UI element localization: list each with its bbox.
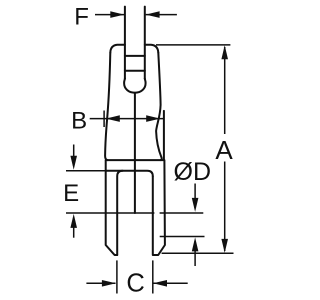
A bottom arrowhead bbox=[221, 239, 228, 253]
E lower arrow tail bbox=[73, 218, 75, 238]
upper fork right edge S-curve bbox=[156, 53, 162, 160]
E/OD mid line right segment bbox=[160, 212, 204, 214]
F dim line left bbox=[95, 14, 124, 16]
slot pin bar 1 bbox=[125, 55, 145, 57]
upper fork bottom edge bbox=[107, 159, 164, 161]
OD upper arrow tail bbox=[194, 184, 196, 209]
B left arrowhead bbox=[106, 115, 120, 122]
svg-text:A: A bbox=[215, 135, 233, 165]
upper fork right outer vertical bbox=[163, 111, 165, 160]
E upper ext line bbox=[66, 170, 105, 172]
A top arrowhead bbox=[221, 45, 228, 59]
B dim line bbox=[90, 118, 164, 120]
C left arrowhead bbox=[102, 280, 116, 287]
svg-text:B: B bbox=[71, 108, 87, 135]
junction left connector bbox=[105, 160, 107, 171]
E lower arrowhead bbox=[70, 214, 77, 228]
A dim line lower segment bbox=[224, 162, 226, 252]
svg-text:F: F bbox=[74, 3, 89, 30]
B right arrowhead bbox=[146, 115, 160, 122]
shaft left line bbox=[124, 7, 126, 79]
C left ext line bbox=[116, 260, 118, 293]
center link line bbox=[134, 93, 136, 213]
lower fork outer left edge with chamfer and left leg bottom bbox=[106, 171, 118, 255]
svg-text:C: C bbox=[126, 269, 144, 297]
F right arrowhead bbox=[146, 11, 160, 18]
OD lower arrow tail bbox=[194, 241, 196, 266]
A dim line upper segment bbox=[224, 47, 226, 134]
F left arrowhead bbox=[110, 11, 124, 18]
C dim line left tail bbox=[86, 282, 115, 284]
lower fork top edge into slot right corner bbox=[106, 171, 153, 177]
OD lower arrowhead bbox=[192, 237, 199, 251]
E/OD mid line left segment bbox=[66, 212, 154, 214]
svg-text:ØD: ØD bbox=[174, 158, 212, 186]
svg-text:E: E bbox=[63, 180, 79, 207]
slot U bottom bbox=[124, 79, 146, 93]
E upper arrow tail bbox=[73, 145, 75, 167]
lower fork inner right edge bbox=[153, 160, 165, 255]
E upper arrowhead bbox=[70, 156, 77, 170]
C right arrowhead bbox=[153, 280, 167, 287]
OD upper arrowhead bbox=[192, 198, 199, 212]
F dim line right tail bbox=[146, 14, 177, 16]
upper fork top edge left shoulder bbox=[110, 45, 125, 53]
OD lower ext line bbox=[160, 236, 205, 238]
lower fork inner left edge with top corner bbox=[117, 171, 123, 255]
C right ext line bbox=[152, 260, 154, 293]
slot pin bar 2 bbox=[125, 70, 145, 72]
shaft right line bbox=[144, 7, 146, 79]
B left extension tick bbox=[103, 111, 105, 128]
A top ext line bbox=[156, 44, 230, 46]
upper fork left edge bbox=[105, 53, 110, 160]
upper fork top edge right shoulder bbox=[145, 45, 159, 53]
C dim line right tail bbox=[153, 282, 187, 284]
A bottom ext line bbox=[162, 252, 234, 254]
